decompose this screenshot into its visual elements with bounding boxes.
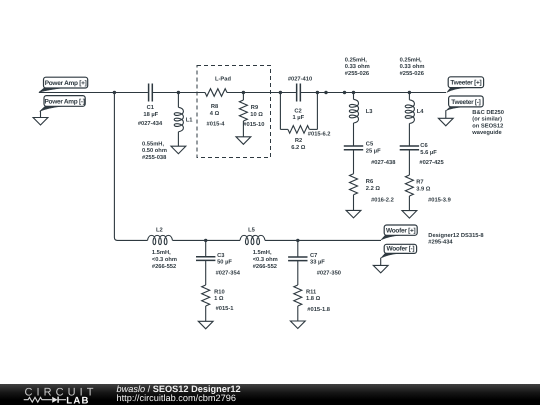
svg-text:1.8 Ω: 1.8 Ω: [306, 295, 321, 302]
svg-text:0.50 ohm: 0.50 ohm: [142, 147, 167, 154]
node C2R2 right: [316, 91, 319, 94]
svg-text:Woofer [-]: Woofer [-]: [387, 246, 415, 253]
ground under R10: [205, 306, 207, 321]
svg-text:50 µF: 50 µF: [217, 258, 232, 265]
svg-text:<0.3 ohm: <0.3 ohm: [253, 256, 278, 263]
L-Pad dashed box: [197, 66, 271, 158]
svg-text:waveguide: waveguide: [471, 129, 501, 136]
flag Power Amp [-]: [40, 106, 62, 111]
wire L5 to Woofer flag: [265, 239, 381, 241]
svg-text:5.6 µF: 5.6 µF: [420, 149, 437, 156]
svg-text:C1: C1: [147, 104, 155, 111]
svg-text:#027-438: #027-438: [371, 159, 396, 166]
ground under R6: [353, 195, 355, 211]
svg-text:18 µF: 18 µF: [143, 111, 158, 118]
ground under R11: [297, 306, 299, 321]
node L3 tap: [352, 91, 355, 94]
node junction to woofer branch: [113, 91, 116, 94]
wire Power Amp [-] stub: [40, 111, 42, 118]
resistor R10: [202, 285, 210, 306]
capacitor C3: [205, 240, 207, 256]
svg-text:L3: L3: [366, 108, 373, 115]
flag Woofer [-]: [381, 253, 399, 258]
inductor L4: [408, 93, 410, 100]
svg-text:#015-1.8: #015-1.8: [307, 306, 331, 313]
svg-text:R10: R10: [214, 288, 225, 295]
svg-text:1 µF: 1 µF: [292, 115, 304, 121]
wire C6 to R7: [408, 150, 410, 175]
svg-text:LAB: LAB: [66, 395, 89, 405]
svg-text:3.9 Ω: 3.9 Ω: [416, 186, 431, 193]
svg-text:#266-552: #266-552: [152, 263, 176, 270]
svg-text:0.33 ohm: 0.33 ohm: [400, 63, 425, 70]
capacitor C2: [296, 84, 298, 102]
svg-text:R6: R6: [366, 178, 373, 185]
wire top rail left segment: [39, 92, 148, 94]
svg-text:L2: L2: [156, 227, 163, 234]
ground under Woofer [-]: [373, 265, 388, 273]
wire C3 to R10: [205, 260, 207, 285]
svg-text:#266-552: #266-552: [253, 263, 277, 270]
wire C5 to R6: [353, 150, 355, 174]
wire Woofer [-] stub: [380, 258, 382, 266]
flag Woofer [+]: [381, 235, 400, 240]
svg-text:0.25mH,: 0.25mH,: [345, 56, 367, 63]
svg-text:#015-6.2: #015-6.2: [308, 131, 331, 138]
wire C7 to R11: [297, 261, 299, 285]
svg-text:#027-350: #027-350: [317, 270, 341, 277]
svg-text:L4: L4: [417, 109, 425, 115]
inductor L1: [177, 93, 179, 108]
inductor L3: [353, 93, 355, 100]
svg-text:R11: R11: [306, 289, 317, 295]
svg-text:http://circuitlab.com/cbm2796: http://circuitlab.com/cbm2796: [117, 393, 237, 403]
wire L2 to L5: [173, 239, 241, 241]
flag Tweeter [-]: [446, 107, 464, 111]
svg-text:L5: L5: [248, 228, 256, 234]
footer bar: [0, 384, 540, 405]
node C3 tap: [204, 239, 207, 242]
svg-text:#295-434: #295-434: [428, 239, 453, 246]
resistor R7: [405, 175, 413, 196]
ground under L1: [177, 132, 179, 146]
svg-text:2.2 Ω: 2.2 Ω: [366, 185, 381, 192]
svg-text:#027-410: #027-410: [288, 75, 312, 82]
svg-text:Tweeter [+]: Tweeter [+]: [450, 80, 481, 87]
svg-text:33 µF: 33 µF: [310, 258, 325, 265]
wire top rail right segment: [301, 92, 446, 94]
svg-text:#027-434: #027-434: [138, 120, 163, 127]
logo diode: [52, 397, 57, 403]
svg-text:Tweeter [-]: Tweeter [-]: [451, 99, 480, 106]
svg-text:#027-354: #027-354: [216, 270, 241, 277]
svg-text:#027-425: #027-425: [419, 159, 444, 166]
svg-text:C6: C6: [420, 142, 427, 149]
svg-text:#016-2.2: #016-2.2: [371, 197, 394, 204]
ground under Power Amp [-]: [33, 118, 48, 126]
svg-text:L-Pad: L-Pad: [215, 76, 231, 83]
svg-text:10 Ω: 10 Ω: [250, 111, 263, 118]
inductor L2: [148, 235, 173, 244]
svg-text:Power Amp [+]: Power Amp [+]: [45, 80, 87, 87]
node C2R2 left: [279, 91, 282, 94]
resistor R8: [205, 89, 227, 97]
svg-text:R7: R7: [416, 180, 423, 186]
svg-text:C3: C3: [217, 252, 224, 259]
resistor R2 parallel branch: [279, 93, 281, 130]
wire Tweeter [-] stub: [445, 110, 447, 118]
ground under R7: [408, 196, 410, 211]
svg-text:0.25mH,: 0.25mH,: [400, 56, 422, 63]
svg-text:6.2 Ω: 6.2 Ω: [291, 144, 306, 151]
svg-text:#015-1: #015-1: [216, 305, 235, 312]
ground under Tweeter [-]: [438, 118, 453, 126]
svg-text:<0.3 ohm: <0.3 ohm: [152, 256, 177, 263]
svg-text:#015-10: #015-10: [243, 121, 264, 128]
capacitor C5: [344, 145, 363, 147]
wire top rail middle segment a: [152, 92, 205, 94]
node C7 tap: [296, 239, 299, 242]
svg-text:Woofer [+]: Woofer [+]: [386, 227, 416, 234]
svg-text:25 µF: 25 µF: [366, 148, 381, 155]
svg-text:Power Amp [-]: Power Amp [-]: [45, 98, 85, 105]
svg-text:Designer12 DS315-8: Designer12 DS315-8: [428, 232, 484, 239]
ground under R9: [236, 137, 251, 145]
svg-text:C2: C2: [294, 107, 301, 114]
node L4 tap: [408, 91, 411, 94]
svg-text:B&C DE250: B&C DE250: [472, 109, 504, 116]
svg-text:(or similar): (or similar): [472, 116, 502, 123]
svg-text:1 Ω: 1 Ω: [214, 295, 224, 302]
capacitor C1: [148, 84, 150, 102]
resistor R11: [294, 285, 302, 306]
node R9 tap: [242, 91, 245, 94]
resistor R9: [242, 93, 244, 101]
capacitor C6: [400, 145, 419, 147]
svg-text:0.55mH,: 0.55mH,: [142, 140, 164, 147]
svg-text:L1: L1: [186, 117, 194, 123]
wire woofer vertical feed: [114, 93, 147, 241]
svg-text:#255-026: #255-026: [400, 70, 424, 77]
svg-text:#255-026: #255-026: [345, 70, 369, 77]
node wire joint b: [343, 91, 346, 94]
svg-text:4 Ω: 4 Ω: [210, 110, 220, 117]
flag Power Amp [+]: [39, 88, 63, 92]
node wire joint a: [324, 91, 327, 94]
svg-text:#015-3.9: #015-3.9: [428, 197, 451, 204]
svg-text:R2: R2: [295, 137, 302, 144]
svg-text:1.5mH,: 1.5mH,: [152, 250, 171, 256]
inductor L5: [240, 235, 265, 244]
svg-text:R9: R9: [251, 104, 258, 111]
svg-text:0.33 ohm: 0.33 ohm: [345, 63, 370, 70]
svg-text:on SEOS12: on SEOS12: [472, 122, 503, 129]
capacitor C7: [297, 240, 299, 257]
svg-text:C5: C5: [366, 141, 374, 148]
svg-text:#255-038: #255-038: [142, 154, 167, 161]
svg-text:#015-4: #015-4: [207, 121, 226, 128]
resistor R6: [350, 174, 358, 195]
svg-text:1.5mH,: 1.5mH,: [253, 250, 272, 256]
wire top rail middle segment b: [227, 92, 297, 94]
svg-text:C7: C7: [310, 252, 317, 259]
flag Tweeter [+]: [447, 88, 468, 93]
svg-text:R8: R8: [211, 103, 219, 110]
logo resistor zigzag: [24, 397, 52, 402]
node L1 tap: [177, 91, 180, 94]
